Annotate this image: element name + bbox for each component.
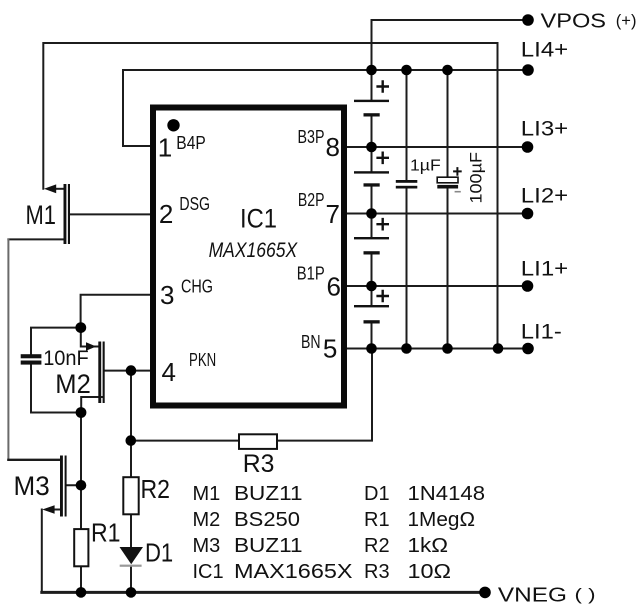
wire R2 D1 column [130, 371, 132, 593]
svg-text:R2: R2 [364, 535, 390, 557]
wire gate line M1 to LI1- [43, 43, 497, 349]
wire M2 drain to pin4 [104, 370, 152, 372]
svg-text:M2: M2 [55, 369, 91, 399]
battery cell B1 [354, 290, 389, 324]
svg-text:1kΩ: 1kΩ [408, 535, 449, 557]
wire bottom VNEG rail [42, 591, 485, 594]
op-amp IC1 box [153, 108, 344, 406]
transistor M1 [44, 184, 70, 244]
junction 100uF bottom [442, 343, 453, 354]
wire M2 gate feed [81, 328, 98, 347]
wire battery column segments [371, 70, 373, 349]
battery cell B2 [354, 218, 389, 255]
capacitor 10nF [21, 354, 42, 364]
svg-text:5: 5 [323, 334, 337, 364]
terminal dot VPOS [522, 14, 534, 26]
wire M1 drain to pin2 [69, 213, 152, 215]
svg-text:8: 8 [326, 132, 340, 162]
svg-text:1MegΩ: 1MegΩ [408, 509, 476, 531]
junction M3 source R1 top [76, 480, 87, 491]
wire pin1 feed and LI4+ row [123, 70, 528, 146]
junction M2 source 10nF bottom [76, 407, 87, 418]
svg-text:3: 3 [160, 280, 174, 310]
terminal dot LI4+ [522, 64, 534, 76]
wire 100uF column [447, 70, 449, 349]
pin 1 marker dot [167, 119, 179, 131]
wire M3 gate feed [42, 510, 61, 593]
svg-text:PKN: PKN [189, 350, 216, 370]
svg-text:R1: R1 [91, 518, 121, 548]
capacitor 1uF [396, 180, 418, 189]
junction 1uF bottom [401, 343, 412, 354]
junction D1 cathode VNEG rail [126, 587, 137, 598]
junction R2 top R3 left [126, 435, 137, 446]
svg-text:10Ω: 10Ω [408, 561, 452, 583]
svg-text:(+): (+) [616, 11, 637, 30]
wire left rail grey [7, 239, 9, 459]
transistor M3 [42, 456, 66, 517]
terminal dot VNEG [479, 587, 491, 599]
junction B3P node [366, 142, 377, 153]
svg-text:( ): ( ) [575, 586, 596, 604]
svg-text:BN: BN [301, 332, 321, 352]
svg-text:DSG: DSG [179, 194, 210, 214]
svg-text:VPOS: VPOS [541, 10, 607, 32]
svg-text:1N4148: 1N4148 [408, 483, 486, 505]
svg-text:BUZ11: BUZ11 [234, 483, 303, 505]
svg-text:M3: M3 [14, 471, 50, 501]
svg-text:6: 6 [327, 272, 341, 302]
wire VPOS top [372, 20, 529, 70]
terminal dot LI1- [522, 343, 534, 355]
svg-text:BUZ11: BUZ11 [234, 535, 303, 557]
wire R3 branch [131, 349, 372, 441]
svg-text:LI4+: LI4+ [521, 39, 568, 62]
terminal dot LI2+ [522, 208, 534, 220]
svg-text:VNEG: VNEG [498, 585, 567, 607]
svg-text:R1: R1 [364, 509, 390, 531]
svg-text:1µF: 1µF [410, 158, 441, 175]
svg-text:MAX1665X: MAX1665X [234, 561, 353, 583]
battery cell B4 [354, 80, 389, 116]
svg-text:LI1+: LI1+ [521, 258, 568, 281]
svg-text:LI2+: LI2+ [521, 185, 568, 208]
wire M1 source [8, 238, 63, 240]
svg-text:M3: M3 [193, 535, 221, 557]
wire LI1- row [345, 348, 528, 350]
battery cell B3 [354, 152, 389, 187]
wire R1 column [80, 413, 82, 593]
wire M2 source [81, 397, 103, 413]
junction gate-line to BN row [493, 343, 504, 354]
wire 10nF branch [31, 328, 81, 413]
svg-text:B4P: B4P [176, 133, 206, 153]
junction CHG node M2 gate 10nF [75, 322, 86, 333]
junction 100uF top [442, 65, 453, 76]
wire pin3 feed [81, 295, 152, 328]
svg-text:R2: R2 [141, 474, 171, 504]
svg-text:D1: D1 [364, 483, 390, 505]
svg-text:1: 1 [158, 132, 172, 162]
svg-text:R3: R3 [243, 450, 275, 478]
junction battery top / VPOS node [366, 65, 377, 76]
diode D1 [120, 547, 144, 567]
wire M1 gate stub [56, 188, 64, 190]
wire M3 drain [8, 459, 61, 461]
svg-text:BS250: BS250 [234, 509, 300, 531]
svg-text:MAX1665X: MAX1665X [209, 238, 299, 262]
wire LI2+ row [345, 213, 528, 215]
terminal dot LI1+ [522, 280, 534, 292]
junction B2P node [366, 208, 377, 219]
svg-text:IC1: IC1 [193, 561, 224, 583]
svg-text:LI1-: LI1- [521, 321, 562, 344]
svg-text:R3: R3 [364, 561, 390, 583]
svg-text:4: 4 [162, 357, 176, 387]
junction BN node battery bottom [366, 343, 377, 354]
svg-text:LI3+: LI3+ [521, 118, 568, 141]
junction R1 bottom VNEG rail [76, 587, 87, 598]
svg-text:IC1: IC1 [240, 203, 277, 233]
svg-text:2: 2 [159, 199, 173, 229]
svg-text:7: 7 [326, 199, 340, 229]
resistor R3 [239, 434, 277, 449]
svg-text:B1P: B1P [297, 264, 325, 284]
svg-text:B2P: B2P [298, 190, 325, 210]
wire LI1+ row [345, 285, 528, 287]
resistor R2 [123, 477, 138, 514]
svg-text:M1: M1 [26, 200, 57, 230]
terminal dot LI3+ [522, 141, 534, 153]
wire M3 source [66, 484, 81, 486]
svg-text:M2: M2 [193, 509, 221, 531]
capacitor 100uF electrolytic [437, 167, 462, 192]
junction 1uF top [401, 65, 412, 76]
svg-text:M1: M1 [193, 483, 221, 505]
resistor R1 [74, 529, 88, 566]
svg-text:CHG: CHG [181, 277, 213, 297]
svg-text:10nF: 10nF [43, 347, 89, 370]
junction PKN node pin 4 [126, 365, 137, 376]
svg-text:100µF: 100µF [467, 152, 485, 204]
transistor M2 [86, 342, 105, 404]
wire LI3+ row [345, 146, 528, 148]
svg-text:D1: D1 [145, 538, 173, 568]
svg-text:B3P: B3P [298, 127, 325, 147]
wire 1uF column [406, 70, 408, 349]
junction B1P node [366, 281, 377, 292]
